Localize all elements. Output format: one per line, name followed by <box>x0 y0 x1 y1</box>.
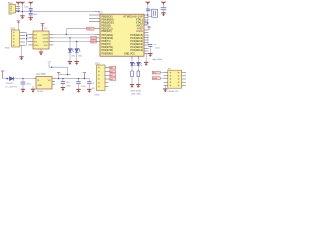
ground G14 <box>144 62 148 65</box>
ground G5 <box>68 61 72 64</box>
J1 pins <box>16 7 21 12</box>
resistor R1 <box>131 71 134 84</box>
J4 pins right <box>182 73 186 86</box>
capacitor C1 <box>21 78 32 89</box>
capacitor C3 <box>76 78 86 89</box>
svg-text:GND GND: GND GND <box>131 93 141 95</box>
ground G1 <box>20 15 24 18</box>
ground G16 <box>136 84 140 87</box>
crystal Q1 <box>152 9 158 17</box>
svg-text:IC3: IC3 <box>98 10 103 14</box>
svg-text:OUT2: OUT2 <box>43 38 49 40</box>
power flag VCC4 <box>146 2 150 5</box>
wire down to LED1 <box>69 38 71 48</box>
svg-text:GND: GND <box>33 14 38 16</box>
wire LED4 <box>131 59 133 62</box>
ground G12 <box>161 12 165 15</box>
svg-text:RST: RST <box>87 29 92 31</box>
wire to ground from J2 <box>21 45 23 56</box>
J4 pins left <box>164 73 168 86</box>
wire J4 left <box>160 73 163 79</box>
svg-text:VCC: VCC <box>44 45 49 47</box>
ground G7 <box>21 89 25 92</box>
svg-text:GND: GND <box>5 47 10 49</box>
svg-text:OUT1: OUT1 <box>43 34 49 36</box>
svg-text:78L05Z: 78L05Z <box>36 91 44 93</box>
wire J4 gnd <box>164 85 166 88</box>
wire gnd branch right <box>144 54 146 62</box>
regulator IC1 <box>36 77 52 90</box>
label RESET <box>87 27 94 31</box>
U2 pins right <box>49 34 54 45</box>
svg-text:DC-INPUT: DC-INPUT <box>5 87 18 89</box>
IC1 pins <box>34 79 57 85</box>
svg-text:RX: RX <box>91 42 95 44</box>
ground G4 below U2 <box>39 49 43 55</box>
IC3 pins left <box>89 12 100 42</box>
wire bus J2 to U2 <box>25 32 29 45</box>
power flag VCC5 <box>161 2 165 5</box>
wire VCC2 stem <box>21 5 23 12</box>
svg-text:GND VCC: GND VCC <box>124 52 135 55</box>
wire GND stem below VCC2 <box>21 12 23 16</box>
ground G3 <box>19 56 23 59</box>
capacitor C2 <box>61 78 65 87</box>
ground G2 <box>29 17 33 20</box>
ground G13 <box>148 53 152 56</box>
svg-text:330R 330R: 330R 330R <box>130 91 141 93</box>
capacitor C9 <box>148 45 162 61</box>
power flag +5V b <box>83 73 86 79</box>
wire input net <box>3 78 34 80</box>
ground G8 <box>31 89 35 92</box>
svg-text:IC1 7805: IC1 7805 <box>36 74 46 76</box>
wire reset branch <box>66 29 94 35</box>
J2 pins <box>20 32 26 45</box>
capacitor C7 <box>29 12 38 17</box>
J3 pins <box>105 68 110 87</box>
capacitor C6 <box>29 5 33 12</box>
wire 5V output net <box>56 78 89 80</box>
power flag VCC3 <box>29 2 33 5</box>
connector J2 <box>5 26 20 49</box>
wire LED5 <box>137 59 139 62</box>
label A2 <box>110 74 116 77</box>
wire VCC1 stem <box>17 5 19 12</box>
ground G10 <box>76 89 80 92</box>
label A0 <box>110 66 116 69</box>
LED D3 <box>75 48 80 52</box>
LED D4 <box>130 62 135 65</box>
label A1 <box>110 70 116 73</box>
label PWR <box>152 71 160 74</box>
wire crystal net <box>144 5 152 25</box>
LED D5 <box>137 62 142 65</box>
svg-text:GND: GND <box>95 95 100 97</box>
wire down to LED2 <box>76 42 78 49</box>
resistor R2 <box>137 71 140 84</box>
svg-text:GND: GND <box>66 86 71 88</box>
wire regulator gnd <box>32 86 34 89</box>
junction dots on main net <box>18 11 19 12</box>
svg-text:GND: GND <box>34 45 39 47</box>
svg-text:LED: LED <box>78 56 83 58</box>
svg-text:VO: VO <box>48 80 51 82</box>
ground G15 <box>130 84 134 87</box>
power flag VIN <box>1 71 4 79</box>
microcontroller IC3 <box>100 14 144 56</box>
capacitor C8 <box>161 5 167 13</box>
connector J4 <box>168 70 182 88</box>
label A3 <box>110 78 116 81</box>
svg-text:PD0(RXD): PD0(RXD) <box>102 52 113 55</box>
wire flag to J2 <box>17 23 19 30</box>
svg-text:Agnd MHz: Agnd MHz <box>153 58 163 61</box>
wire net A to IC3 <box>54 33 95 35</box>
svg-text:AGND: AGND <box>136 30 143 33</box>
wire +5V distribution <box>49 63 71 79</box>
svg-text:OUT3: OUT3 <box>43 41 49 43</box>
power symbol AVCC <box>147 26 151 30</box>
capacitor C10 plates <box>146 8 150 10</box>
power flag above J2 <box>17 21 21 24</box>
connector J1 <box>8 1 16 13</box>
wire main net y11.6 <box>20 11 95 13</box>
power flag VCC1 <box>16 2 20 5</box>
wire net C <box>54 41 95 43</box>
label RXD <box>91 40 97 44</box>
ground G11 <box>87 89 91 92</box>
svg-text:100n: 100n <box>24 7 30 9</box>
svg-text:LED: LED <box>71 56 76 58</box>
diode D1 <box>10 77 14 81</box>
svg-text:1N4007: 1N4007 <box>5 83 14 85</box>
ground G6 <box>75 61 79 64</box>
IC3 pins bottom <box>132 56 138 59</box>
LED D2 <box>68 48 73 52</box>
power flag VCC2 <box>20 2 24 5</box>
power stem into U2 <box>41 24 45 31</box>
capacitor C4 <box>87 79 91 89</box>
IC3 pins right <box>144 15 149 54</box>
label TXD <box>91 36 97 40</box>
svg-text:PB0(ICP): PB0(ICP) <box>102 30 112 33</box>
op-amp U2 <box>33 31 49 49</box>
U2 pins left <box>29 34 34 45</box>
power flag +5V a <box>57 72 60 74</box>
svg-text:SDA: SDA <box>153 77 158 80</box>
connector J3 <box>95 65 105 97</box>
ground G9 <box>61 87 65 90</box>
label SDA <box>152 77 160 80</box>
capacitor C9 net <box>148 35 156 44</box>
svg-text:PINHD-2X5: PINHD-2X5 <box>168 91 180 93</box>
junction dots <box>26 35 27 36</box>
ground G17 <box>163 88 167 91</box>
svg-text:GND: GND <box>37 85 42 87</box>
wire net B <box>54 37 95 39</box>
